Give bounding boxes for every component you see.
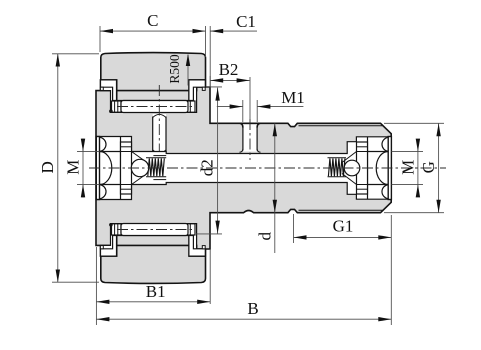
dim D line [57,54,59,283]
svg-text:C1: C1 [236,12,256,31]
dim B1 line [96,301,210,303]
central duct and nipple cavities (white) [96,137,391,200]
nipple left spring channel [146,157,166,159]
dim G line [438,123,440,212]
thrust washer top-left [112,101,122,112]
R500 crown leader [187,55,189,86]
nipple right ball [344,160,360,176]
nipple left hex [121,142,132,194]
grease nipple right: mount face plate [388,137,391,200]
svg-text:M1: M1 [281,88,305,107]
dim d2 line [217,88,219,234]
dim B2 extension [209,76,211,87]
svg-text:M: M [64,160,83,175]
nipple left socket [153,155,166,157]
bearing cavity top (white) [100,80,205,113]
svg-text:C: C [147,11,158,30]
fillet dots stud shoulders [109,109,113,113]
side plate bottom-right [189,236,205,257]
bearing cavity bottom (white) [100,224,205,257]
thread root line bottom [299,209,383,211]
hole B extension to B2 [249,77,251,119]
dim M left line [82,139,84,198]
G1 extension left [293,214,295,243]
thrust washer bottom-right [187,224,195,235]
thread root line top [299,125,383,127]
svg-text:G: G [419,161,438,173]
nipple left spring [148,158,165,176]
dim d line [274,123,276,253]
side plate lip bottom-right [202,246,205,249]
nipple right head splits [368,151,389,153]
dim M right line [417,139,419,197]
side plate lip bottom-left [100,246,103,249]
radial hole B in stud [243,125,257,152]
nipple left ball [131,159,148,176]
needle roller bottom [121,224,188,236]
dim G1 line [294,236,392,238]
M left extensions [77,151,100,153]
B/G1 right extension [390,215,392,325]
dim C line [100,30,206,32]
nipple right cone [342,152,357,185]
thrust washer bottom-left [112,224,122,235]
hole B centerline [249,119,251,160]
nipple left cone [132,152,148,185]
dim C1 line [210,30,257,32]
roller outer ring [101,53,206,284]
G extensions [384,122,444,124]
svg-text:d2: d2 [197,159,216,176]
side plate top-right [189,80,205,101]
needle roller top [121,101,188,113]
D extensions [52,53,99,55]
B1/B left extension [95,247,97,325]
svg-text:D: D [38,161,57,173]
grease nipple left: mount face plate [96,137,99,200]
dim C extension left [99,26,101,52]
nipple right spring [328,158,345,176]
dim B line [96,318,391,320]
dim M1 lines [217,106,243,108]
main centerline [89,167,446,169]
svg-text:B2: B2 [219,60,239,79]
dim C1/B1 shared extension [209,26,211,87]
side plate top-left [101,80,117,101]
hole A centerline [158,85,160,162]
M1 hole extensions [242,100,244,122]
dim C extension right / roller face [205,26,207,57]
nipple left head splits [100,151,121,153]
svg-text:B: B [247,299,258,318]
svg-text:B1: B1 [146,282,166,301]
stud body (head, collar, shaft, thread) [96,87,391,249]
nipple right dome arcs [382,137,388,151]
M right extensions [392,151,424,153]
side plate bottom-left [101,236,117,257]
d2 extensions [206,86,222,88]
svg-text:R500: R500 [167,54,182,84]
thrust washer top-right [187,101,195,112]
side plate lip top-right [202,87,205,90]
side plate lip top-left [100,87,103,90]
svg-text:G1: G1 [333,217,354,236]
svg-text:M: M [399,160,418,175]
needle centerline top [117,106,192,108]
nipple right hex [357,142,368,194]
svg-text:d: d [255,231,274,240]
lubrication hole A through roller zone [153,114,166,154]
nipple left dome arcs [100,137,106,151]
needle centerline bottom [117,229,192,231]
dim B2 line [210,79,249,81]
nipple right spring channel [328,157,347,159]
